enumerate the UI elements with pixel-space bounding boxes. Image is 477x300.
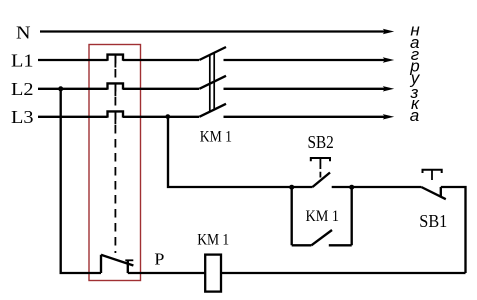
svg-text:SB2: SB2 <box>308 132 334 152</box>
svg-text:KM 1: KM 1 <box>200 128 232 145</box>
svg-text:N: N <box>16 23 31 43</box>
svg-text:а: а <box>410 106 419 125</box>
svg-text:P: P <box>154 249 164 268</box>
svg-text:KM 1: KM 1 <box>306 206 340 225</box>
svg-text:SB1: SB1 <box>419 211 447 231</box>
svg-text:L2: L2 <box>11 79 34 99</box>
svg-text:KM 1: KM 1 <box>197 232 229 249</box>
svg-text:L3: L3 <box>11 107 34 127</box>
svg-text:L1: L1 <box>11 50 34 70</box>
